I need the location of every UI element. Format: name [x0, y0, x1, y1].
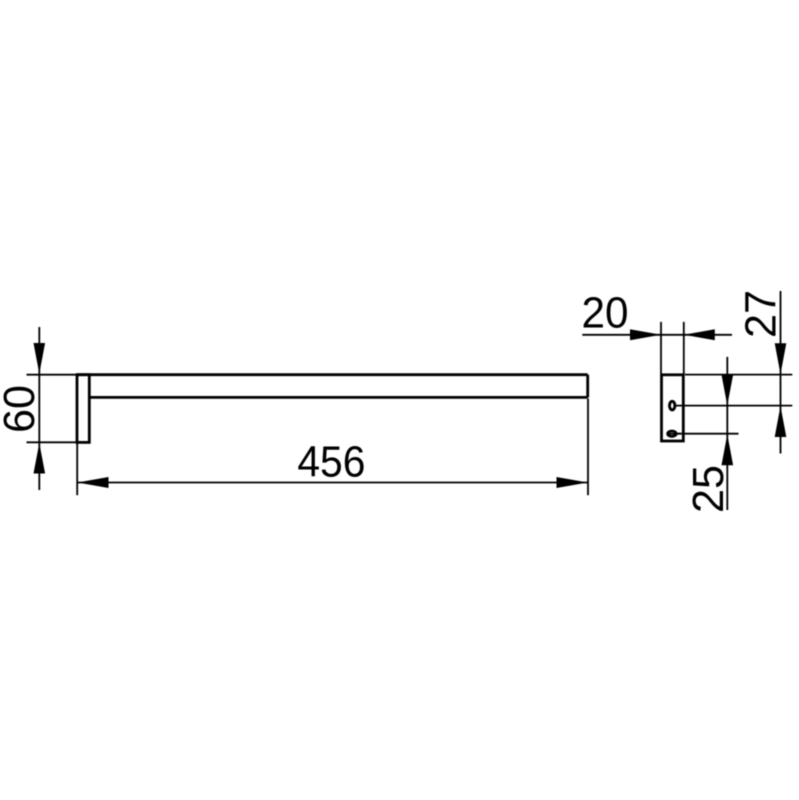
wire: left extension line (20): [660, 322, 662, 374]
wall bracket plate (end view): [662, 375, 684, 441]
wire: 25 dimension line: [726, 357, 728, 510]
arrow up (27): [775, 406, 787, 437]
svg-text:25: 25: [685, 465, 733, 513]
arrow right (456): [557, 477, 588, 488]
arrow up (25): [722, 434, 734, 465]
wire: 456 dimension line: [77, 482, 587, 484]
arrow right (20): [630, 329, 661, 340]
wire: right extension line (20): [683, 322, 685, 374]
wire: extension line bottom (60 dim): [27, 441, 79, 443]
bar top edge: [77, 373, 588, 376]
arrow left (456): [77, 477, 108, 488]
screw hole 1: [670, 401, 675, 410]
screw hole 2: [668, 431, 676, 436]
wire: right extension line (456): [587, 399, 589, 496]
svg-text:27: 27: [738, 290, 786, 338]
wire: 60 dimension line: [38, 327, 40, 490]
arrow left (20): [684, 329, 715, 340]
svg-text:20: 20: [582, 290, 629, 338]
bar right end edge: [586, 375, 589, 398]
arrow down (25): [722, 375, 734, 406]
wire: 27 dimension line: [780, 291, 782, 454]
wire: extension line top (60 dim): [27, 374, 79, 376]
arrow up (60 bottom): [34, 443, 46, 474]
arrow down (60 top): [34, 343, 46, 374]
wire: left extension line (456): [76, 442, 78, 495]
svg-text:456: 456: [297, 439, 365, 487]
bar bottom edge: [89, 396, 587, 399]
wire: extension line from screw hole 1 (27 dim): [676, 405, 792, 407]
svg-text:60: 60: [0, 385, 44, 433]
wall plate (side view): [77, 375, 89, 443]
arrow down (27): [775, 343, 787, 374]
wire: line through hole 2: [668, 433, 680, 435]
wire: top extension line (27): [685, 374, 792, 376]
wire: 20 dimension line: [582, 334, 732, 336]
wire: extension line from screw hole 2 (25 dim): [670, 433, 739, 435]
